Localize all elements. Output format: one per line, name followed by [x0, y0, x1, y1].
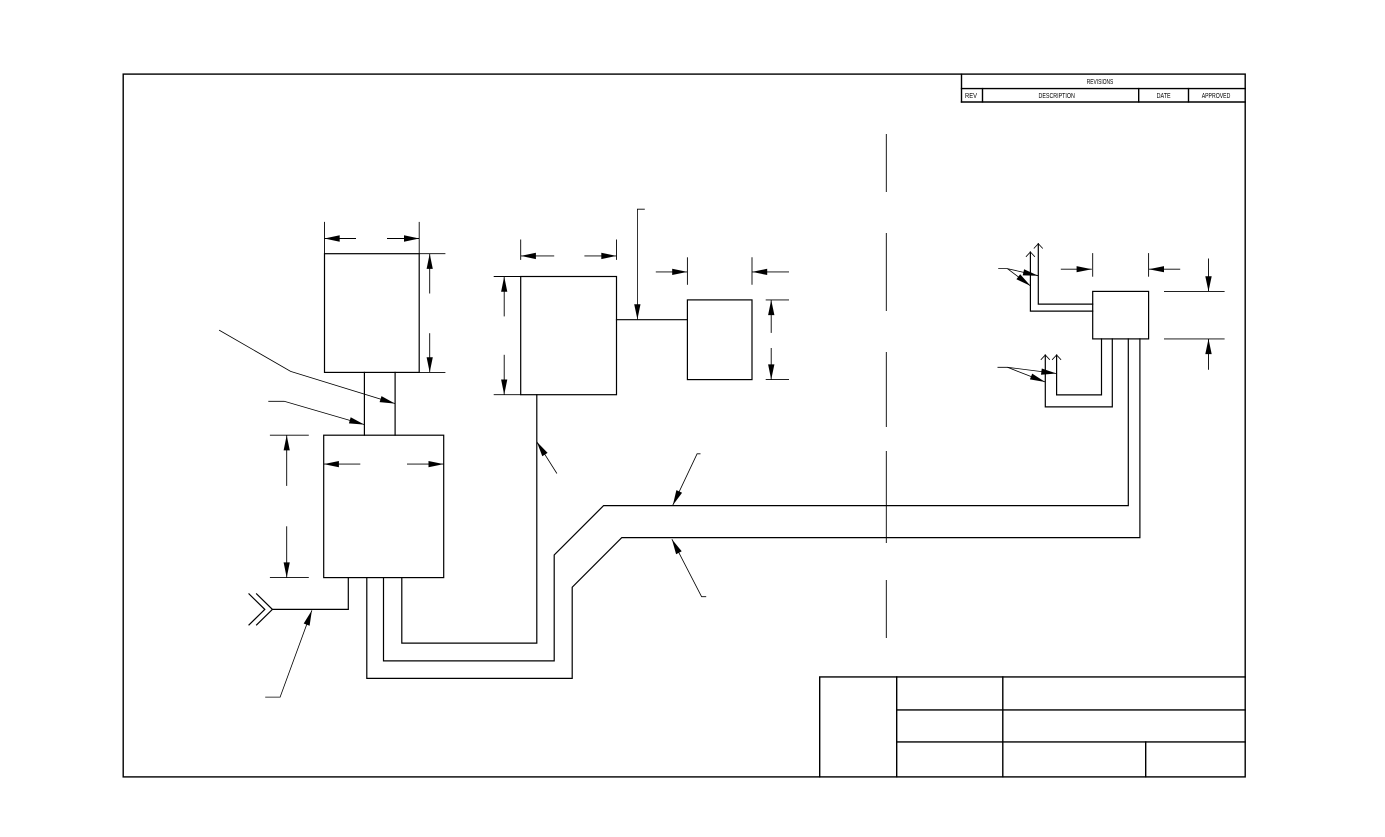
svg-text:REVISIONS: REVISIONS	[1087, 79, 1114, 86]
svg-text:DESCRIPTION: DESCRIPTION	[1039, 93, 1075, 100]
svg-text:REV: REV	[965, 93, 977, 100]
svg-text:DATE: DATE	[1157, 93, 1171, 100]
svg-text:APPROVED: APPROVED	[1202, 93, 1231, 100]
